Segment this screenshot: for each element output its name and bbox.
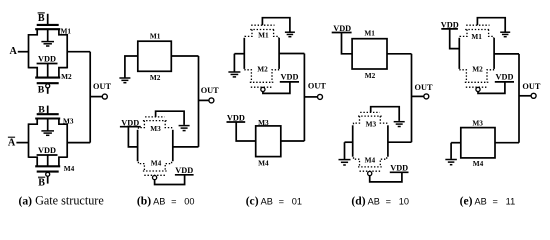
caption (c) AB = 01 [246,194,302,207]
svg-text:VDD: VDD [281,73,299,82]
transistor M3 gate bar [37,113,59,115]
wire upper pair output to bus [67,51,90,53]
svg-text:M3: M3 [472,118,483,127]
transistor M4 off dashed channel bar (panel d) [358,166,382,168]
svg-text:A: A [10,46,18,57]
transistor M3 channel bar [35,117,60,119]
wire OUT stub (panel c) [304,96,317,98]
svg-text:OUT: OUT [201,86,219,95]
ground b2 (M3 gate B=0) [179,126,190,131]
svg-text:VDD: VDD [333,24,351,33]
transistor box M1/M2 on (panel b) [138,41,172,71]
svg-text:A: A [8,137,16,148]
transistor M2 off dashed gate bar (panel e) [466,86,488,88]
wire VDD underline rail right (panel c) [280,81,299,83]
transistor M1 off dashed left leg (panel c) [245,30,252,39]
svg-text:M2: M2 [150,73,161,82]
transistor M3 off dashed right leg (panel b) [165,121,171,131]
wire pair to bus (panel b) [173,146,199,148]
wire input A=0 stub (panel c) [234,53,244,55]
svg-text:OUT: OUT [415,83,433,92]
transistor M1 off dashed gate bar (panel c) [251,24,274,26]
transistor M3 off dashed channel bar (panel d) [358,115,382,117]
transistor M2 off dashed channel bar (panel e) [465,81,489,83]
transistor M4 channel bar [35,165,60,167]
ground e1 (M1 gate B-bar=0) [500,32,510,37]
transistor M4 gate bar [37,171,59,173]
wire M1 gate to ground elbow (panel c) [262,18,290,32]
wire input A-bar=0 stub (panel e) [451,142,461,144]
wire left vertical of M3/M4 pair (panel d) [352,125,354,156]
wire right outer vertical (output side, upper pair) [66,34,68,68]
svg-text:OUT: OUT [308,81,326,90]
wire M3 right leg [59,119,67,125]
svg-text:B: B [38,84,45,95]
svg-text:M1: M1 [61,27,72,36]
wire right outer vertical (panel e) [493,38,495,69]
transistor M2 off dashed gate bar (panel c) [251,86,272,88]
wire left vertical of M3/M4 pair (panel b) [137,130,139,161]
wire M4 gate lead [47,176,49,183]
transistor M2 off dashed right corner (panel e) [487,69,494,82]
ground d1 (M3 gate B=0) [394,122,405,127]
transistor M3 off dashed left leg (panel b) [138,121,144,131]
wire left outer vertical (node A side, upper pair) [28,34,30,68]
transistor M2 off dashed right corner (panel c) [272,69,279,82]
wire M1 left leg [29,29,38,35]
wire pair to bus (panel d) [388,141,412,143]
transistor M3 off dashed channel bar (panel b) [143,120,167,122]
label B-bar (M4 gate signal) [38,177,45,188]
ground e2 (input A-bar=0) [445,160,457,165]
svg-text:M3: M3 [63,116,74,125]
wire left outer vertical (panel e) [458,38,460,69]
svg-text:(a) Gate structure: (a) Gate structure [19,193,104,207]
svg-text:M1: M1 [471,32,482,41]
ground d2 (input A-bar=0) [339,160,351,165]
wire ground drop left (panel d) [344,142,346,159]
transistor M2 off dashed left corner (panel c) [245,69,251,82]
transistor box M1/M2 on (panel d) [352,39,387,69]
wire M2 gate lead [47,88,49,94]
transistor M4 off dashed right leg (panel b) [165,162,171,171]
wire right vertical of M3/M4 pair (panel d) [387,125,389,156]
ground a2 (M3 bulk) [41,131,54,135]
svg-text:VDD: VDD [175,166,193,175]
wire M3 gate lead [47,106,49,115]
wire OUT stub (panel e) [519,95,531,97]
wire M4 gate to VDD (panel b) [155,175,185,185]
transistor M4 gate bubble (panel d) [368,171,372,175]
svg-text:M2: M2 [257,65,268,74]
label B-bar (M1 gate signal) [38,13,45,24]
transistor M1 gate bar [37,24,59,26]
ground a1 (M1 bulk) [41,42,54,46]
transistor box M3/M4 on (panel c) [256,126,281,157]
wire OUT stub (panel a) [90,96,102,98]
wire box to bus (panel e) [495,142,519,144]
wire pair to bus (panel e) [494,53,519,55]
wire M2 left leg [29,68,38,78]
node OUT terminal (panel a) [102,94,107,99]
caption (e) AB = 11 [460,194,516,207]
transistor M4 gate bubble (panel b) [153,176,157,180]
ground b1 (input A=0) [119,78,130,83]
svg-text:M3: M3 [366,120,377,129]
svg-text:M1: M1 [364,29,375,38]
svg-text:M2: M2 [365,71,376,80]
wire input A stub [18,51,29,53]
wire VDD feed to pair left (panel e) [450,29,460,49]
transistor M2 gate bubble (PMOS) [46,84,50,88]
transistor M3 off dashed left leg (panel d) [354,116,360,126]
svg-text:OUT: OUT [93,82,111,91]
svg-text:M4: M4 [151,158,162,167]
wire M4 right leg [59,157,67,166]
wire M2 gate to VDD (panel e) [478,82,505,94]
wire M4 bulk lead [47,155,49,166]
wire OUT bus (panel c) [303,54,305,142]
wire ground drop left (panel c) [233,54,235,72]
transistor M1 off dashed right leg (panel c) [274,30,279,39]
wire M4 left leg [29,157,38,166]
ground c2 (input A=0) [228,72,240,77]
svg-text:M4: M4 [258,159,269,168]
wire OUT bus (panel d) [411,54,413,142]
wire VDD underline rail top-left (panel e) [441,28,458,30]
transistor M4 off dashed gate bar (panel d) [360,170,381,172]
transistor M2 channel bar [35,77,60,79]
wire right vertical of M3/M4 pair (panel b) [172,130,174,161]
wire OUT stub (panel d) [412,95,424,97]
transistor M1 off dashed left leg (panel e) [460,30,467,39]
svg-text:M4: M4 [365,156,376,165]
svg-text:OUT: OUT [522,82,540,91]
wire left outer vertical (panel c) [243,38,245,69]
transistor M1 off dashed channel bar (panel c) [250,29,275,31]
svg-text:M1: M1 [258,31,269,40]
transistor M4 off dashed left leg (panel b) [138,162,144,171]
transistor M4 off dashed right leg (panel d) [380,157,386,167]
wire box to bus (panel d) [387,53,412,55]
wire VDD underline rail left-bottom (panel c) [227,121,246,123]
wire OUT bus (panel e) [518,54,520,143]
wire M2 gate to VDD (panel c) [263,82,290,94]
wire box to bus (panel c) [281,140,305,142]
transistor M3 off dashed gate bar (panel b) [145,116,165,118]
svg-text:M2: M2 [61,72,72,81]
wire input A-bar stub [16,142,28,144]
wire VDD underline rail top-left (panel d) [332,32,352,34]
wire VDD underline rail (lower pair) [37,154,58,156]
transistor M4 off dashed channel bar (panel b) [143,170,167,172]
svg-text:M2: M2 [472,65,483,74]
svg-text:VDD: VDD [38,54,56,63]
svg-text:B: B [38,177,45,188]
wire M4 gate to VDD (panel d) [370,172,402,182]
transistor M2 off dashed left corner (panel e) [460,69,466,82]
wire VDD underline rail bottom (panel b) [175,174,194,176]
svg-text:M4: M4 [473,159,484,168]
transistor M4 off dashed left leg (panel d) [354,157,360,167]
svg-text:M3: M3 [150,124,161,133]
wire M2 right leg [59,68,67,78]
node OUT terminal (panel e) [531,93,536,98]
wire input A-bar=0 stub (panel d) [345,141,353,143]
svg-text:VDD: VDD [38,146,56,155]
node OUT terminal (panel c) [318,94,323,99]
wire left outer vertical (node A-bar side, lower pair) [28,123,30,157]
wire pair to bus (panel c) [279,53,304,55]
wire A=0 to box (panel b) [125,56,138,78]
wire OUT bus (panel b) [198,56,200,147]
wire VDD feed to box (panel c) [236,122,256,141]
node OUT terminal (panel b) [209,98,214,103]
caption (d) AB = 10 [351,194,409,207]
wire VDD underline rail right (panel e) [495,81,514,83]
transistor M3 off dashed gate bar (panel d) [360,111,380,113]
caption (a) Gate structure [19,193,104,207]
wire VDD underline rail bottom (panel d) [390,171,409,173]
svg-text:M1: M1 [150,31,161,40]
wire M3 gate to ground elbow (panel d) [371,107,400,121]
transistor M2 gate bar [37,82,59,84]
wire VDD feed to box (panel d) [342,33,353,54]
wire M1 gate to ground elbow (panel e) [477,18,505,32]
ground c1 (M1 gate B-bar=0) [285,32,295,37]
svg-text:M4: M4 [64,164,75,173]
wire M1 right leg [59,29,67,35]
caption (b) AB = 00 [137,194,195,207]
wire M3 left leg [29,119,38,125]
transistor M1 channel bar [35,28,60,30]
wire M3 bulk lead [47,119,49,131]
wire lower pair output to bus [67,142,90,144]
transistor M4 gate bubble (PMOS) [46,172,50,176]
transistor box M3/M4 on (panel e) [461,128,495,158]
wire OUT stub (panel b) [199,99,210,101]
svg-text:VDD: VDD [496,73,514,82]
wire VDD feed to pair left (panel b) [128,127,137,147]
transistor M2 gate bubble (panel c) [261,87,265,91]
wire VDD underline rail (upper pair) [37,63,58,65]
transistor M1 off dashed channel bar (panel e) [465,29,490,31]
transistor M2 gate bubble (panel e) [476,87,480,91]
transistor M2 off dashed channel bar (panel c) [250,81,273,83]
svg-text:B: B [38,13,45,24]
wire right outer vertical (panel c) [278,38,280,69]
wire box to bus (panel b) [171,55,198,57]
wire OUT bus (panel a) [89,52,91,143]
svg-text:VDD: VDD [390,164,408,173]
wire M1 gate lead [47,14,49,25]
wire VDD underline rail left (panel b) [120,126,141,128]
node OUT terminal (panel d) [424,94,429,99]
wire ground drop left (panel e) [450,143,452,159]
transistor M1 off dashed gate bar (panel e) [466,24,489,26]
wire M1 bulk lead [47,29,49,41]
transistor M3 off dashed right leg (panel d) [380,116,386,126]
transistor M1 off dashed right leg (panel e) [489,30,494,39]
wire right outer vertical (output side, lower pair) [66,123,68,157]
label A-bar (input) [8,137,16,148]
wire M3 gate to ground elbow (panel b) [156,111,185,125]
transistor M4 off dashed gate bar (panel b) [144,174,165,176]
wire M2 bulk lead [47,64,49,78]
